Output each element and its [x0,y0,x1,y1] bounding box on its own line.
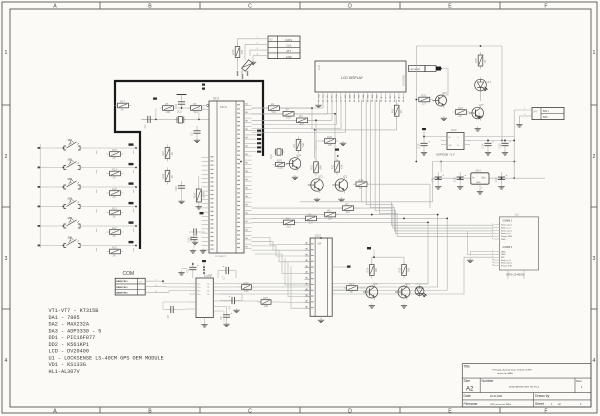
svg-text:R33: R33 [421,93,426,97]
svg-text:GND: GND [501,254,506,256]
svg-text:1K: 1K [170,152,174,155]
svg-text:SB2: SB2 [68,160,73,162]
svg-text:R11: R11 [331,164,335,169]
svg-text:VD4: VD4 [296,154,302,158]
svg-text:R34: R34 [192,193,196,198]
svg-text:ZQ1: ZQ1 [176,111,182,114]
svg-text:2: 2 [492,226,493,228]
svg-text:DA3 - ADP3330 - 5: DA3 - ADP3330 - 5 [49,328,102,334]
svg-text:1K: 1K [483,60,487,63]
svg-text:X2: X2 [268,38,273,42]
svg-text:GND: GND [501,239,506,241]
svg-text:LCD DISPLAY: LCD DISPLAY [341,76,364,80]
svg-text:R5: R5 [165,102,169,106]
svg-text:C15: C15 [417,143,421,148]
svg-text:LED SENS: LED SENS [410,69,421,71]
svg-text:R9: R9 [292,144,296,148]
svg-text:F: F [544,408,547,414]
svg-text:C8: C8 [166,315,170,319]
svg-text:R24: R24 [244,281,249,285]
svg-text:X4: X4 [533,110,538,114]
svg-text:C13: C13 [498,143,502,148]
svg-text:R8: R8 [327,209,331,213]
svg-text:C16: C16 [174,186,178,191]
svg-text:4: 4 [593,358,596,364]
svg-text:R22: R22 [112,226,117,230]
svg-text:Serie_out_1: Serie_out_1 [501,224,513,227]
svg-text:DB5: DB5 [367,95,369,99]
svg-text:R25: R25 [263,296,268,300]
svg-text:R38: R38 [474,58,478,63]
svg-text:Serie_in_3: Serie_in_3 [501,260,511,262]
svg-text:Serie_in_1: Serie_in_1 [501,227,511,229]
svg-text:1: 1 [5,50,8,56]
svg-text:Filename: Filename [464,402,478,406]
svg-text:100: 100 [244,289,249,293]
svg-text:T1o: T1o [197,287,200,289]
svg-text:GND: GND [286,55,292,59]
svg-text:SB6: SB6 [68,238,73,240]
svg-text:R10: R10 [310,164,314,169]
svg-text:SB4: SB4 [68,198,73,201]
svg-text:DB3: DB3 [359,95,361,99]
svg-text:R18: R18 [112,148,117,152]
svg-text:A2: A2 [466,387,474,393]
svg-text:2K: 2K [112,175,116,179]
svg-text:2: 2 [593,154,596,160]
svg-text:DA3: DA3 [451,128,457,132]
svg-text:ATT: ATT [286,49,291,53]
svg-text:DD2 - K561KP1: DD2 - K561KP1 [49,342,89,348]
svg-text:SB5: SB5 [68,218,73,220]
svg-text:GPS LS-40CM: GPS LS-40CM [506,273,525,277]
svg-text:R13: R13 [349,282,354,286]
svg-text:28.10.2008: 28.10.2008 [490,395,503,398]
svg-text:R6: R6 [193,102,197,106]
svg-text:Serie_out_2: Serie_out_2 [501,229,513,232]
svg-text:10K: 10K [328,143,333,147]
svg-text:100: 100 [264,304,269,308]
svg-text:6: 6 [492,238,493,240]
svg-text:R16: R16 [231,49,235,54]
svg-text:C5: C5 [185,269,189,273]
svg-text:R27: R27 [161,150,165,155]
svg-text:2K: 2K [112,234,116,238]
svg-text:HL1-AL307V: HL1-AL307V [49,369,81,375]
svg-text:D: D [348,408,352,414]
svg-text:2K: 2K [120,107,124,111]
svg-text:MX: MX [318,242,322,246]
svg-text:R21: R21 [112,206,117,210]
svg-text:DB1: DB1 [350,95,352,99]
svg-text:ADP3338 - 5 V: ADP3338 - 5 V [436,153,455,157]
svg-text:LCD - DV20400: LCD - DV20400 [49,349,89,355]
svg-text:R3: R3 [299,114,303,118]
svg-text:510: 510 [194,110,199,114]
svg-text:VT6: VT6 [373,282,378,286]
svg-text:R26: R26 [161,173,165,178]
svg-text:reciver for 9Mbit: reciver for 9Mbit [497,372,513,375]
svg-text:GND: GND [476,182,481,184]
svg-text:F: F [544,3,547,9]
svg-text:DD2: DD2 [315,234,321,238]
svg-text:Size: Size [464,379,471,383]
svg-text:Serie_out_3: Serie_out_3 [501,262,513,265]
svg-text:LCD: LCD [318,65,321,70]
svg-text:10: 10 [492,259,494,261]
svg-text:PIC16F877: PIC16F877 [215,256,227,258]
svg-text:2: 2 [5,154,8,160]
svg-text:B: B [148,408,152,414]
svg-text:1K: 1K [459,114,462,118]
svg-text:DB9M PIN 2: DB9M PIN 2 [116,281,128,283]
svg-text:R30: R30 [327,135,332,139]
svg-text:C3: C3 [190,132,194,136]
svg-text:C19: C19 [187,237,191,242]
svg-text:2K: 2K [112,195,116,199]
svg-text:B: B [148,3,152,9]
svg-text:DV-20400: DV-20400 [403,75,406,86]
svg-text:C1: C1 [174,103,178,107]
svg-text:VT7: VT7 [479,103,484,107]
svg-text:ZQ2: ZQ2 [270,154,273,160]
svg-text:C12: C12 [494,177,498,182]
svg-text:VT3: VT3 [405,282,410,286]
svg-text:VT2: VT2 [343,175,348,179]
svg-text:DA1 - 7805: DA1 - 7805 [49,315,80,321]
svg-text:3: 3 [492,229,493,231]
svg-text:VT1: VT1 [318,175,323,179]
svg-text:1: 1 [593,50,596,56]
svg-text:5: 5 [492,235,493,237]
svg-text:C: C [248,3,252,9]
svg-text:Serie_in_2: Serie_in_2 [501,233,511,235]
svg-text:1K: 1K [350,290,353,294]
svg-text:DB4: DB4 [363,95,365,99]
svg-text:DB6: DB6 [372,95,374,99]
svg-text:Sheet: Sheet [535,402,544,406]
svg-text:DB2: DB2 [354,95,356,99]
svg-text:DB9M PIN 3: DB9M PIN 3 [116,287,128,289]
svg-text:C6: C6 [219,316,223,320]
svg-text:510: 510 [271,110,276,114]
svg-text:R7: R7 [345,202,349,206]
svg-text:Date: Date [464,394,471,398]
svg-text:510: 510 [300,122,305,126]
svg-text:DD1 - PIC16F877: DD1 - PIC16F877 [49,335,96,341]
svg-text:R29: R29 [277,159,282,163]
svg-text:R23: R23 [112,245,117,249]
svg-text:DA2 - MAX232A: DA2 - MAX232A [49,322,90,328]
svg-text:BAT+: BAT+ [543,110,550,113]
svg-text:217: 217 [421,101,427,105]
svg-text:C14: C14 [481,143,485,148]
svg-text:DD1: DD1 [213,96,220,100]
svg-text:Power_3.3V: Power_3.3V [501,266,513,268]
svg-text:1: 1 [492,224,493,226]
svg-text:C10: C10 [453,177,457,182]
svg-text:BAT−: BAT− [543,116,550,119]
svg-text:47K: 47K [240,50,244,55]
svg-text:2.2K: 2.2K [277,166,284,170]
svg-text:SB3: SB3 [68,179,73,181]
svg-text:43K: 43K [318,165,322,170]
svg-text:1K: 1K [170,175,174,178]
svg-text:Title: Title [464,364,470,368]
svg-text:R1: R1 [271,102,275,106]
svg-text:10K: 10K [301,143,305,148]
svg-text:U1 - LOCKSENSE LS-40CM GPS OE: U1 - LOCKSENSE LS-40CM GPS OEM MODULE [49,355,164,361]
svg-text:510: 510 [287,224,292,228]
svg-text:2K: 2K [112,253,116,257]
svg-text:2K: 2K [112,214,116,218]
svg-text:R37: R37 [458,106,463,110]
svg-text:CLK: CLK [286,43,291,47]
svg-text:U1: U1 [515,212,519,216]
svg-text:Number: Number [482,379,495,383]
svg-text:Rev: Rev [576,379,582,383]
svg-text:R15: R15 [398,267,402,272]
svg-text:VD1 - KS133G: VD1 - KS133G [49,362,86,368]
svg-text:R31: R31 [390,108,394,113]
svg-text:4: 4 [5,358,8,364]
svg-text:COMM 1: COMM 1 [503,220,513,223]
svg-text:2K: 2K [112,156,116,160]
svg-text:DATA: DATA [286,38,293,42]
svg-text:COMM 2: COMM 2 [503,246,513,249]
svg-text:A: A [53,3,57,9]
svg-text:4: 4 [492,232,493,234]
svg-text:R14: R14 [366,267,370,272]
svg-text:2K: 2K [399,110,403,114]
svg-text:R20: R20 [112,187,117,191]
svg-text:R/W: R/W [336,94,338,98]
svg-text:E: E [448,408,452,414]
svg-text:43K: 43K [339,164,343,169]
svg-text:C4: C4 [227,306,231,310]
svg-text:GND: GND [208,274,213,276]
svg-text:D: D [348,3,352,9]
svg-text:VT5: VT5 [442,91,447,95]
svg-text:DA1: DA1 [476,169,482,173]
svg-text:R19: R19 [112,167,117,171]
svg-text:000001 AFGHR-76591 764.971-0: 000001 AFGHR-76591 764.971-0 [509,386,540,389]
svg-text:GND: GND [318,94,320,99]
svg-text:C2: C2 [143,125,147,129]
svg-text:510: 510 [286,116,291,120]
svg-text:3: 3 [5,256,8,262]
svg-text:HL1: HL1 [487,80,492,84]
svg-text:GND: GND [501,251,506,253]
svg-text:Drawn by: Drawn by [535,394,550,398]
svg-text:DB7: DB7 [376,95,378,99]
svg-text:Power_GND: Power_GND [501,236,513,238]
svg-text:R17: R17 [120,99,125,103]
svg-text:Out: Out [482,177,486,180]
svg-text:E: E [448,3,452,9]
svg-text:A: A [53,408,57,414]
svg-text:Principial shematic basic modu: Principial shematic basic module of GPS [492,369,532,372]
svg-text:SB1: SB1 [68,140,73,142]
svg-text:C: C [248,408,252,414]
svg-text:1K: 1K [359,186,362,190]
svg-text:DB9M PIN 5: DB9M PIN 5 [116,292,128,294]
svg-text:MCU: MCU [220,105,228,109]
svg-text:11: 11 [492,262,494,264]
svg-text:T1o: T1o [197,283,200,285]
svg-text:N/C: N/C [501,257,505,259]
svg-text:T1o: T1o [197,294,200,296]
svg-text:510: 510 [346,210,351,214]
svg-text:R12: R12 [359,178,364,182]
svg-text:10K: 10K [406,268,410,273]
svg-text:COM: COM [123,271,135,277]
svg-text:T1o: T1o [197,290,200,292]
svg-text:C7: C7 [221,276,225,280]
svg-text:10R: 10R [166,110,171,114]
svg-text:10K: 10K [374,268,378,273]
svg-text:VT1-VT7 - KT315B: VT1-VT7 - KT315B [49,308,99,314]
svg-text:DB0: DB0 [345,95,347,99]
svg-text:of: of [558,402,561,406]
svg-text:12: 12 [492,265,494,267]
svg-text:3: 3 [593,256,596,262]
svg-text:GPS reciver for 9Mbit: GPS reciver for 9Mbit [490,403,511,406]
